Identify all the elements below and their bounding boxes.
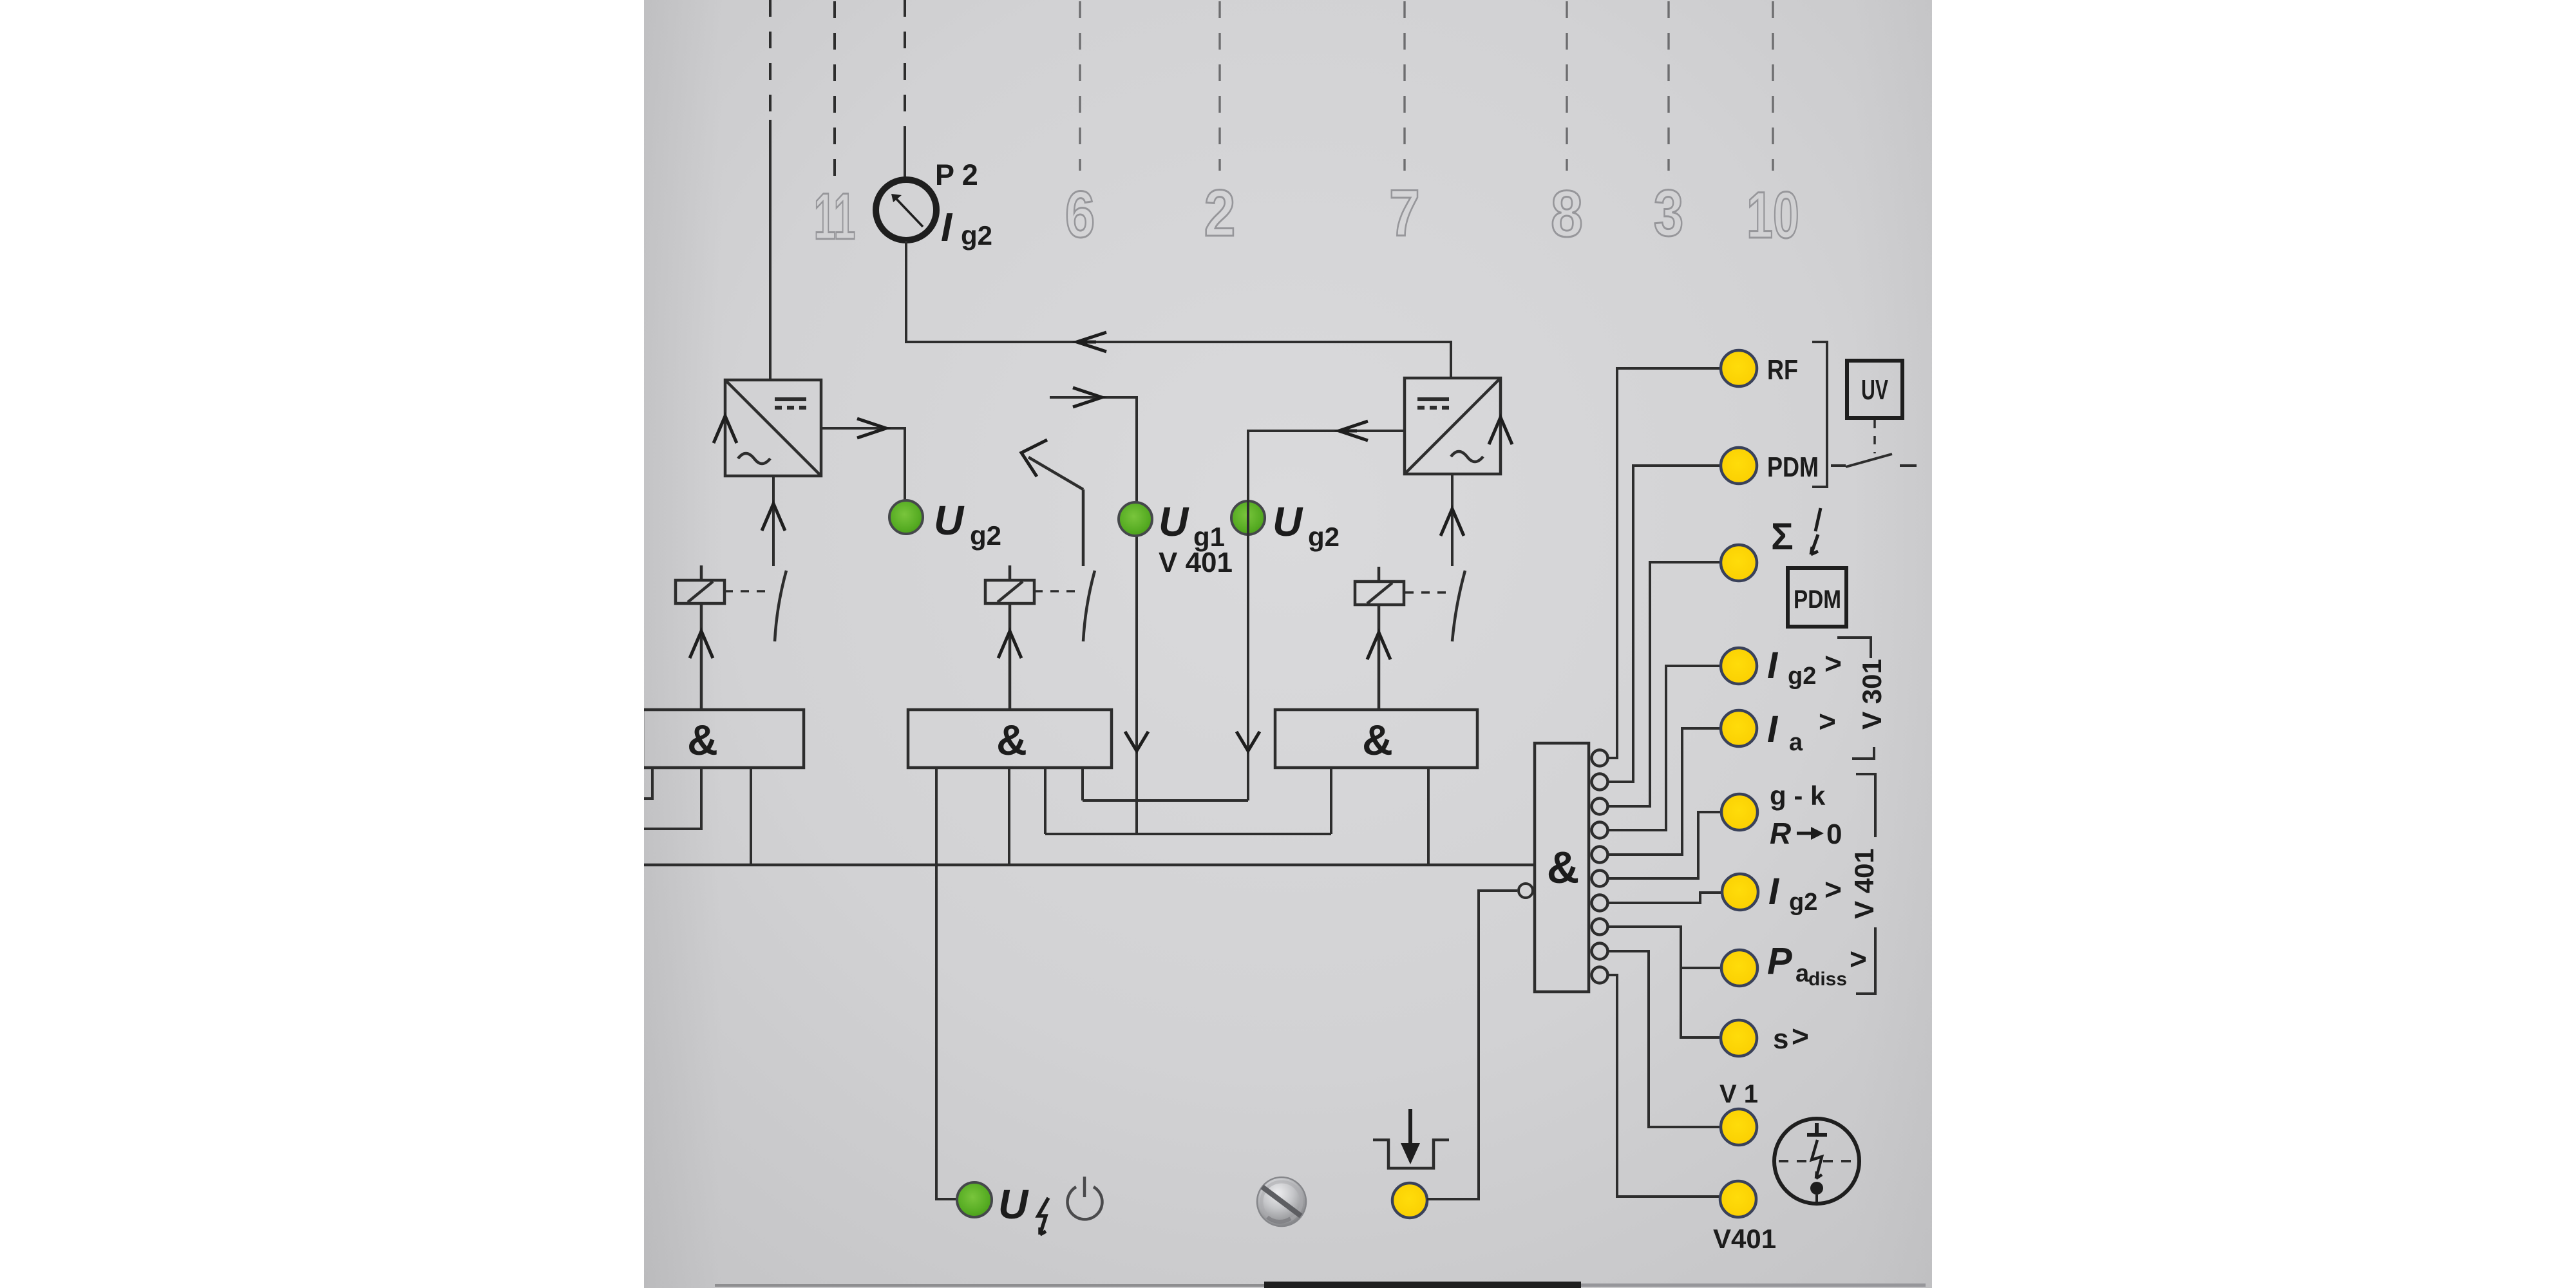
svg-text:R: R: [1770, 817, 1791, 850]
svg-text:V401: V401: [1713, 1224, 1776, 1254]
svg-text:7: 7: [1389, 176, 1420, 250]
disconnect switch arm: [1028, 457, 1083, 566]
LED Pa diss: [1721, 950, 1757, 986]
svg-text:I: I: [941, 205, 953, 250]
LED V1: [1721, 1109, 1757, 1145]
link wire g1 level: [1045, 833, 1331, 835]
up arrow on coil K1 feed: [690, 631, 713, 658]
svg-text:I: I: [1767, 645, 1779, 687]
pulse arrow: [1408, 1109, 1412, 1149]
svg-text:V 401: V 401: [1849, 848, 1879, 919]
svg-text:U: U: [1159, 498, 1189, 545]
LED RF: [1721, 350, 1757, 386]
main bus wire: [643, 864, 1535, 867]
bracket V401: [1856, 774, 1875, 994]
top dashed line 2: [1218, 1, 1220, 171]
top dashed line 8: [1566, 1, 1567, 171]
UV switch contact: [1831, 454, 1917, 467]
AND gate G2: [908, 710, 1112, 768]
middle feed arrow line: [1050, 397, 1137, 834]
LED g-k: [1721, 794, 1757, 830]
svg-text:>: >: [1824, 647, 1842, 680]
svg-text:g2: g2: [1789, 889, 1817, 916]
top dashed line (node 11 spare): [833, 1, 836, 177]
wire meter to bus: [906, 241, 1451, 378]
svg-text:a: a: [1795, 960, 1810, 987]
T2 bottom wire: [1451, 474, 1454, 566]
bracket V301: [1837, 638, 1874, 759]
arrow left on meter wire: [1077, 332, 1106, 352]
svg-text:UV: UV: [1861, 374, 1888, 406]
LED Ig2 V401: [1722, 874, 1758, 910]
lightning after sigma: [1811, 508, 1821, 554]
relay contact K1: [724, 571, 786, 641]
meter P2 Ig2: [876, 158, 992, 251]
LED PDM: [1721, 448, 1757, 484]
wire Ig2 V301: [1608, 666, 1722, 830]
up arrow on T2 right edge: [1489, 417, 1512, 444]
wire Pa diss and s: [1608, 927, 1722, 1037]
LED Ug1 green: [1119, 498, 1233, 578]
svg-text:P: P: [1767, 940, 1792, 982]
PDM box: [1788, 568, 1846, 627]
svg-text:U: U: [998, 1181, 1029, 1227]
arrow in R->0: [1797, 827, 1824, 840]
svg-text:>: >: [1824, 873, 1842, 906]
crowbar symbol: [1774, 1119, 1859, 1204]
LED Ug2b green: [1231, 498, 1340, 552]
svg-text:&: &: [996, 716, 1027, 764]
converter T2 (right): [1405, 378, 1501, 474]
crowbar dot: [1810, 1182, 1823, 1195]
wire Ia V301: [1608, 728, 1722, 855]
svg-text:>: >: [1850, 942, 1867, 976]
LED Ug2 green: [889, 497, 1001, 551]
wire meter top: [904, 130, 906, 178]
bottom edge strip: [715, 1284, 1269, 1287]
svg-text:U: U: [934, 497, 965, 544]
svg-text:V 401: V 401: [1159, 547, 1233, 578]
svg-text:I: I: [1768, 871, 1780, 913]
svg-text:3: 3: [1654, 176, 1684, 250]
svg-text:U: U: [1273, 498, 1303, 545]
svg-text:g2: g2: [961, 220, 992, 251]
wire V401: [1608, 975, 1721, 1197]
wire Ug2b from converter T2: [1248, 431, 1405, 800]
wire RF: [1608, 368, 1721, 758]
svg-text:g - k: g - k: [1770, 781, 1826, 811]
AND gate G3: [1275, 710, 1477, 768]
top dashed feeder line 11: [769, 0, 772, 113]
screw: [1257, 1177, 1306, 1226]
svg-text:PDM: PDM: [1794, 585, 1841, 614]
svg-text:&: &: [687, 716, 718, 764]
top dashed line 7: [1403, 1, 1405, 171]
top dashed line 3: [1667, 1, 1669, 171]
power symbol: [1067, 1177, 1102, 1219]
svg-text:RF: RF: [1767, 354, 1798, 386]
panel background: [644, 0, 1932, 1288]
LED Ig2 V301: [1721, 648, 1757, 684]
arrowhead on switch arm: [1021, 440, 1047, 477]
converter T1 (left): [725, 380, 821, 476]
down arrow on Ug2b line: [1236, 732, 1260, 751]
svg-text:V 301: V 301: [1857, 659, 1887, 730]
engraved slot numbers: [814, 176, 1799, 253]
lightning glyph Uh: [1038, 1198, 1048, 1235]
wire pulse LED to inverted input: [1427, 891, 1517, 1199]
svg-text:g2: g2: [1788, 663, 1816, 690]
pulse input symbol: [1373, 1140, 1449, 1168]
up arrow on coil K3 feed: [1367, 632, 1390, 659]
up arrow on T2 bottom wire: [1441, 509, 1464, 536]
svg-text:10: 10: [1747, 178, 1799, 252]
bracket RF PDM: [1812, 342, 1827, 487]
LED pulse yellow: [1392, 1183, 1427, 1218]
arrow right on T1 output: [857, 419, 886, 438]
crowbar dashed line: [1779, 1160, 1856, 1162]
relay contact K3: [1405, 571, 1465, 641]
top dashed line 6: [1079, 1, 1081, 171]
svg-text:11: 11: [814, 180, 856, 253]
svg-text:8: 8: [1551, 178, 1583, 251]
relay coil K2: [985, 565, 1034, 710]
LED V401: [1720, 1181, 1756, 1217]
wire PDM: [1608, 466, 1721, 782]
relay coil K1: [676, 565, 724, 710]
G1 output stubs exiting left: [643, 768, 751, 865]
svg-text:g2: g2: [1308, 522, 1340, 552]
G3 output wires: [1331, 768, 1428, 865]
LED Ia V301: [1721, 710, 1757, 746]
up arrow on coil K2 feed: [998, 631, 1021, 658]
down arrow on Ug1 line: [1125, 732, 1148, 751]
svg-text:I: I: [1767, 708, 1779, 750]
svg-text:0: 0: [1826, 819, 1842, 850]
svg-text:2: 2: [1204, 177, 1236, 251]
top dashed line 10: [1772, 1, 1774, 171]
svg-text:a: a: [1789, 729, 1803, 756]
svg-text:V 1: V 1: [1719, 1080, 1758, 1108]
svg-text:&: &: [1362, 716, 1393, 764]
LED s: [1721, 1020, 1757, 1056]
arrow left on T2 output: [1339, 421, 1368, 440]
LED Uh green: [957, 1181, 1029, 1227]
AND gate G4 (main interlock): [1535, 743, 1589, 992]
G2 output wires: [936, 768, 1083, 1199]
wire V1: [1608, 951, 1721, 1127]
svg-text:PDM: PDM: [1767, 451, 1819, 483]
svg-text:6: 6: [1065, 178, 1095, 251]
up arrow on T1 bottom wire: [762, 504, 785, 531]
T1 bottom wire: [772, 476, 775, 566]
G4 output circles: [1592, 750, 1608, 983]
svg-text:Σ: Σ: [1771, 516, 1794, 558]
top dashed feeder to meter P2: [904, 0, 906, 130]
dashed link under UV: [1873, 420, 1876, 453]
wire g-k: [1608, 812, 1723, 878]
wire sum fault: [1608, 562, 1721, 806]
up arrow on T1 left edge: [714, 416, 737, 443]
svg-text:>: >: [1819, 705, 1836, 738]
wire into converter T1: [769, 120, 772, 380]
svg-text:diss: diss: [1808, 969, 1847, 990]
svg-text:&: &: [1547, 842, 1580, 893]
AND gate G1: [643, 710, 804, 768]
wire Ig2 V401: [1608, 893, 1723, 903]
UV box: [1847, 361, 1902, 418]
relay contact K2: [1034, 571, 1095, 641]
svg-text:s: s: [1773, 1023, 1788, 1055]
LED sum fault: [1721, 545, 1757, 581]
T1 output wire to Ug2 LED: [821, 428, 905, 501]
svg-text:P 2: P 2: [935, 158, 978, 191]
arrow right on middle feed: [1073, 388, 1102, 407]
inverted input circle: [1519, 884, 1533, 898]
link wire g2 level: [1083, 799, 1248, 802]
relay coil K3: [1355, 567, 1404, 710]
svg-text:>: >: [1792, 1019, 1809, 1053]
svg-text:g2: g2: [970, 520, 1001, 551]
